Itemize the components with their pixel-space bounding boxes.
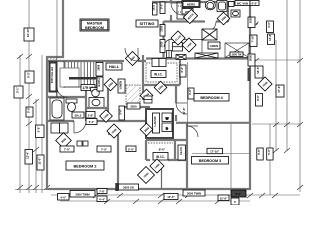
svg-text:3050 TW: 3050 TW bbox=[232, 54, 242, 57]
right dim box 6-5 top bbox=[250, 1, 259, 6]
left dim box 11-0 bbox=[37, 155, 44, 170]
svg-text:6'-6": 6'-6" bbox=[267, 21, 271, 28]
bedroom2 wd boxes bbox=[51, 123, 68, 133]
svg-text:W: W bbox=[166, 117, 169, 121]
bottom dim box 12-0 bbox=[164, 194, 178, 200]
sitting closet door label 1 bbox=[171, 31, 185, 45]
bedroom2 door label bbox=[56, 133, 72, 149]
sitting label bbox=[136, 20, 158, 27]
wall master bedroom south / hall north bbox=[47, 60, 146, 62]
dim 4-6 vertical bbox=[188, 88, 194, 99]
wall sitting south bbox=[146, 57, 250, 59]
wic upper room dashes bbox=[146, 63, 177, 82]
window bed4 north 2 bbox=[195, 53, 218, 58]
sitting closet walls bbox=[169, 29, 202, 58]
svg-text:6'-5": 6'-5" bbox=[251, 1, 258, 5]
exterior wall jog bbox=[46, 56, 64, 58]
bedroom3 label bbox=[192, 157, 229, 165]
door label hall bbox=[140, 89, 153, 102]
right dim box 12-8 bbox=[268, 33, 275, 45]
chase hatch lines bbox=[126, 85, 140, 104]
right dim box 17-6 bbox=[276, 85, 284, 97]
bedroom3 door label bbox=[138, 167, 155, 184]
svg-text:W.I.C.: W.I.C. bbox=[154, 73, 163, 77]
hall small boxes pair bbox=[77, 141, 88, 146]
wc vanity label bbox=[235, 1, 250, 6]
dimension line right A bbox=[275, 40, 277, 151]
linen vertical bbox=[118, 79, 125, 93]
bath2 label bbox=[72, 112, 84, 118]
svg-text:BEDROOM: BEDROOM bbox=[85, 26, 104, 30]
bedroom2 dim box 2 bbox=[97, 146, 111, 152]
svg-text:BATH: BATH bbox=[97, 78, 101, 86]
svg-text:12'-8": 12'-8" bbox=[268, 33, 272, 41]
hall small dim box a bbox=[86, 112, 95, 119]
svg-text:8'-6": 8'-6" bbox=[159, 148, 166, 152]
svg-text:8'-0": 8'-0" bbox=[235, 192, 242, 196]
wall master bath south bbox=[164, 20, 229, 22]
dim box 6-0 vertical bbox=[180, 65, 186, 77]
sitting window dim box a bbox=[160, 2, 166, 14]
dimension line right horizontal mid bbox=[252, 123, 300, 125]
exterior wall top bbox=[152, 1, 250, 3]
master bath door arc bbox=[171, 3, 183, 15]
wall bedroom4 west bbox=[175, 85, 177, 121]
wall bedroom3 west bbox=[186, 123, 188, 189]
bath3 name vertical bbox=[97, 77, 103, 91]
svg-text:7'-0": 7'-0" bbox=[101, 148, 108, 152]
dim extension line left wall bbox=[56, 0, 59, 97]
right dim box 5-0b bbox=[267, 148, 273, 160]
svg-text:7'-0": 7'-0" bbox=[64, 148, 71, 152]
wall jog hatch bbox=[48, 58, 58, 62]
window label 3050 SH hall bbox=[127, 103, 140, 109]
lav sink bbox=[231, 10, 240, 17]
svg-text:2'-8": 2'-8" bbox=[27, 106, 31, 113]
svg-text:5'-0": 5'-0" bbox=[160, 3, 164, 9]
svg-text:3050 TWIN: 3050 TWIN bbox=[75, 192, 89, 196]
window right wall bed4 bbox=[248, 68, 251, 81]
wall hall east / wic west bbox=[142, 55, 144, 100]
svg-text:10'-9": 10'-9" bbox=[220, 196, 228, 200]
wc door arc bbox=[206, 22, 217, 33]
sitting closet wd boxes bbox=[173, 43, 183, 52]
master bedroom label bbox=[80, 19, 109, 31]
svg-text:HERS: HERS bbox=[187, 3, 195, 7]
bottom dim box 7-8 bbox=[97, 189, 107, 194]
laundry label vertical bbox=[153, 113, 160, 133]
master shower bbox=[217, 1, 227, 12]
exterior wall bottom bbox=[47, 188, 250, 190]
bottom dim box existing bbox=[70, 191, 95, 198]
svg-text:BEDROOM 4: BEDROOM 4 bbox=[200, 96, 223, 100]
svg-text:5'-4": 5'-4" bbox=[89, 120, 95, 124]
bedroom2 door arc bbox=[74, 121, 86, 133]
master toilet bbox=[205, 1, 215, 10]
hall door label bed2 bbox=[107, 124, 121, 138]
wall nook east lower bbox=[161, 166, 163, 189]
bedroom4 door arc bbox=[176, 103, 187, 114]
svg-text:LINEN: LINEN bbox=[119, 81, 123, 89]
dim 8-6 text bbox=[159, 148, 166, 152]
laundry closet walls bbox=[146, 109, 173, 138]
stair bottom edge bbox=[64, 86, 96, 88]
svg-text:6'-0": 6'-0" bbox=[180, 66, 184, 73]
bath3 toilet bbox=[91, 88, 100, 97]
window post dark bbox=[115, 183, 118, 191]
svg-text:4'-0": 4'-0" bbox=[60, 196, 67, 200]
right dim box angled bbox=[258, 77, 272, 91]
door label 3050 angled hall bbox=[125, 51, 139, 65]
bay window label bbox=[230, 52, 243, 57]
svg-text:16'-10": 16'-10" bbox=[26, 27, 30, 37]
stair right wall bbox=[96, 61, 98, 91]
svg-text:2030: 2030 bbox=[160, 41, 164, 47]
svg-text:3050: 3050 bbox=[249, 17, 253, 23]
dimension line bottom main bbox=[15, 190, 300, 196]
master bath door label bbox=[183, 9, 197, 23]
svg-text:4'-6": 4'-6" bbox=[188, 88, 192, 95]
svg-text:LAUND: LAUND bbox=[153, 116, 157, 126]
closet block bed2/bed3 bbox=[146, 140, 188, 160]
wic upper door label bbox=[154, 81, 167, 94]
svg-text:5'-2": 5'-2" bbox=[27, 71, 31, 78]
dryer box bbox=[162, 123, 172, 132]
bath2 tub bbox=[50, 98, 64, 120]
left dim box 3-1 bbox=[14, 86, 23, 98]
svg-text:5'-0": 5'-0" bbox=[128, 148, 135, 152]
right dim box 9-0 bbox=[256, 94, 263, 107]
bottom window label 3050 twin bbox=[183, 190, 205, 196]
svg-text:W.I.C.: W.I.C. bbox=[156, 155, 165, 159]
left dim box 16-10 bbox=[24, 27, 34, 41]
master bath sink bbox=[182, 9, 193, 15]
linen sitting label bbox=[208, 42, 220, 49]
closet door label lower bbox=[150, 159, 164, 173]
washer box bbox=[162, 113, 172, 122]
stair open well bbox=[60, 68, 79, 87]
window bed4 north 1 bbox=[176, 55, 186, 60]
bath2 door arc bbox=[57, 88, 68, 98]
bottom dim box small left bbox=[58, 194, 70, 201]
exterior wall right bbox=[249, 2, 251, 190]
svg-text:2030: 2030 bbox=[160, 25, 164, 31]
wic closet block bbox=[143, 58, 180, 85]
sitting closet door label 2 bbox=[182, 38, 196, 52]
bedroom4 label bbox=[194, 94, 229, 102]
closet shelf dashes bbox=[148, 142, 173, 144]
dimension line bottom secondary bbox=[60, 200, 250, 202]
wall bedroom2 nook west bbox=[117, 134, 119, 189]
svg-text:2668: 2668 bbox=[97, 64, 101, 70]
svg-text:7'-8": 7'-8" bbox=[99, 190, 105, 194]
svg-text:BA.2: BA.2 bbox=[75, 114, 82, 118]
bedroom2 door leaf bbox=[73, 121, 75, 133]
hall dim vbox 5-6 bbox=[119, 106, 125, 120]
right dim box 3050a bbox=[248, 17, 255, 28]
right dim box 5-0a bbox=[257, 148, 263, 160]
bedroom3 dim box 17-10 bbox=[207, 148, 223, 153]
dim text bedroom4 bbox=[182, 107, 186, 115]
svg-text:7'-10": 7'-10" bbox=[251, 34, 255, 42]
bay window X bbox=[225, 43, 249, 58]
svg-text:3050 SH: 3050 SH bbox=[123, 186, 134, 190]
wall sitting east partition bbox=[162, 22, 164, 59]
svg-text:4'-4": 4'-4" bbox=[99, 197, 106, 201]
stair door label vertical bbox=[96, 63, 103, 77]
svg-text:BEDROOM 3: BEDROOM 3 bbox=[199, 159, 221, 163]
svg-text:9'-0": 9'-0" bbox=[256, 94, 260, 101]
dimension line right B bbox=[286, 0, 288, 151]
bottom dim box porch bbox=[231, 190, 246, 197]
dimension tick marks bottom bbox=[93, 193, 278, 204]
svg-text:11'-0": 11'-0" bbox=[38, 157, 42, 165]
svg-text:5'-2": 5'-2" bbox=[37, 126, 41, 133]
stair direction label bbox=[81, 85, 95, 91]
bottom dim box 4-4 bbox=[97, 196, 107, 202]
svg-text:3050: 3050 bbox=[130, 105, 137, 109]
svg-text:WC VAN: WC VAN bbox=[237, 1, 248, 5]
wic lower label bbox=[153, 153, 168, 161]
left dim box 2-8 bbox=[26, 106, 33, 117]
bath3 door label bbox=[104, 78, 117, 91]
svg-text:17'-10": 17'-10" bbox=[210, 150, 220, 154]
attic access hatch bbox=[202, 29, 217, 40]
stair left wall bbox=[63, 61, 65, 88]
right dim box 3050b bbox=[248, 54, 255, 66]
wc small box bbox=[229, 2, 235, 7]
svg-text:17'-6": 17'-6" bbox=[277, 85, 281, 93]
left wall window vert label bbox=[49, 62, 57, 92]
dimension tick marks right bbox=[253, 58, 303, 190]
bedroom2 dim box 1 bbox=[60, 146, 74, 152]
attic chase dashed bbox=[126, 85, 140, 104]
clos lower vertical bbox=[178, 145, 186, 160]
master hall door arc bbox=[125, 48, 138, 61]
left dim box 5-2b bbox=[36, 125, 45, 138]
wall bath3 hall bbox=[107, 87, 109, 121]
bedroom3 door arc bbox=[187, 126, 198, 137]
bedroom2 label bbox=[66, 161, 104, 170]
wall water closet bbox=[227, 2, 229, 22]
dimension line left B bbox=[28, 0, 30, 193]
nook dim box bbox=[126, 146, 136, 152]
right dim box 7-10 bbox=[250, 34, 257, 46]
exterior wall left upper bbox=[62, 0, 64, 58]
stair rail bar bbox=[69, 77, 96, 80]
master bath counter bbox=[177, 2, 184, 19]
dimension line right C bbox=[299, 0, 301, 192]
wall hall south at laundry bbox=[120, 106, 150, 108]
dimension line left A bbox=[19, 55, 21, 193]
bottom dim box partial bbox=[231, 198, 239, 205]
right dim box 6-6 bbox=[267, 21, 274, 33]
svg-text:LINEN: LINEN bbox=[210, 44, 218, 48]
wall bath2 east bbox=[85, 87, 87, 121]
master ne window box bbox=[153, 3, 158, 15]
wall bedroom3 north bbox=[176, 122, 250, 124]
dimension line left C bbox=[35, 99, 37, 193]
wall bedroom2 nook north bbox=[108, 133, 118, 135]
wic upper appliances bbox=[152, 59, 166, 67]
dim line bedroom4 vertical bbox=[187, 62, 189, 125]
dimension tick marks left bbox=[17, 54, 50, 190]
sitting window dim box b bbox=[160, 25, 166, 37]
wall bath2 north bbox=[47, 96, 86, 98]
dimension line left D bbox=[41, 55, 43, 193]
wall bedroom2 north bbox=[47, 120, 146, 122]
svg-text:BEDROOM 2: BEDROOM 2 bbox=[74, 164, 97, 168]
svg-text:HALL: HALL bbox=[109, 65, 120, 69]
wc door label bbox=[217, 12, 230, 25]
svg-text:2030: 2030 bbox=[153, 4, 156, 10]
bath3 south wall bbox=[86, 107, 108, 109]
hall small dim box b bbox=[86, 119, 97, 125]
bath3 vanity bbox=[89, 98, 104, 108]
bath2 toilet bbox=[66, 99, 77, 112]
stair treads bbox=[65, 62, 94, 87]
svg-text:4': 4' bbox=[234, 200, 237, 204]
svg-text:3050 SGL HG: 3050 SGL HG bbox=[50, 67, 54, 83]
svg-text:5'-0": 5'-0" bbox=[267, 148, 271, 155]
left dim box 12-4 bbox=[25, 150, 33, 165]
sitting closet door arc bbox=[164, 40, 169, 48]
dimension line right horizontal upper bbox=[252, 59, 300, 61]
exterior wall left lower bbox=[46, 57, 48, 190]
small box above wic bbox=[167, 51, 172, 58]
wall master bath west bbox=[170, 0, 172, 22]
interior extension line bedroom3 bbox=[230, 123, 232, 188]
leader arrow bbox=[255, 21, 259, 25]
svg-text:12'-4": 12'-4" bbox=[26, 151, 30, 159]
svg-text:13'-5": 13'-5" bbox=[256, 66, 260, 74]
svg-text:5'-0": 5'-0" bbox=[257, 148, 261, 155]
left dim box 5-2 bbox=[25, 71, 34, 83]
svg-text:3050 TWIN: 3050 TWIN bbox=[187, 192, 201, 196]
laundry door label bbox=[140, 123, 153, 136]
svg-text:3'-1": 3'-1" bbox=[16, 86, 20, 93]
hall shelf box bbox=[144, 96, 152, 103]
svg-text:2'-8": 2'-8" bbox=[88, 114, 94, 118]
right dim box 13-5 bbox=[255, 66, 263, 78]
svg-text:3050: 3050 bbox=[249, 54, 253, 61]
bottom dim box 10-9 bbox=[218, 195, 229, 201]
sitting window dim box c bbox=[160, 40, 166, 53]
window left wall master low bbox=[49, 72, 53, 84]
hers label bbox=[182, 1, 200, 8]
svg-text:SITTING: SITTING bbox=[140, 22, 155, 26]
hall door label 2468b angled bbox=[100, 110, 113, 123]
wic upper label bbox=[151, 71, 166, 78]
bottom window label 3050 SH bbox=[119, 184, 139, 190]
svg-text:12'-0": 12'-0" bbox=[167, 195, 175, 199]
svg-text:CLOS.: CLOS. bbox=[179, 146, 183, 155]
hall label bbox=[106, 63, 122, 70]
dimension line right extra bbox=[269, 124, 271, 195]
svg-text:5'-6": 5'-6" bbox=[119, 108, 123, 114]
bedroom3 interior dim line bbox=[192, 153, 250, 155]
